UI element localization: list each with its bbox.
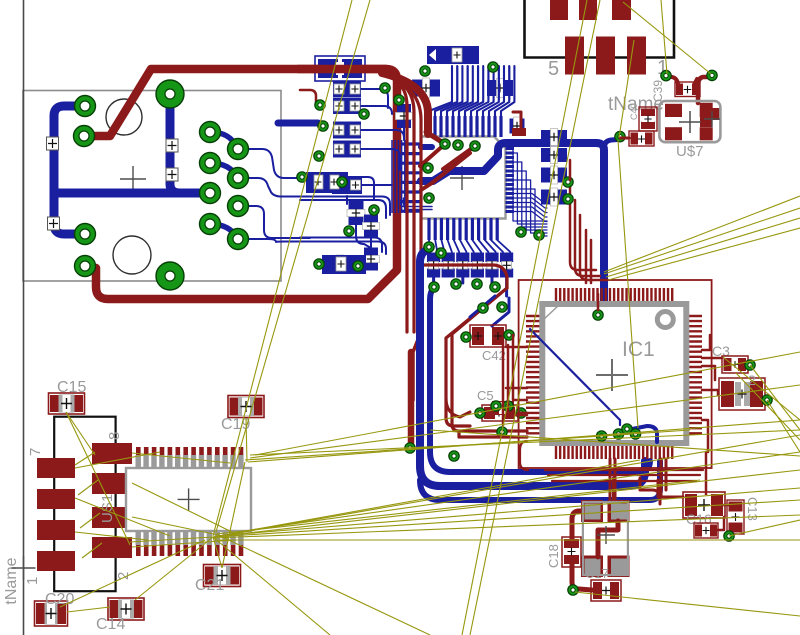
wire blue pad link 3 [210, 224, 238, 239]
IC1 top pins [555, 288, 557, 306]
wire blue diagonal IC1 [530, 329, 620, 425]
capacitor C42 [446, 398, 470, 417]
ic U2 left bus [391, 140, 393, 213]
wire blue top-left U2 [421, 144, 432, 150]
wire red vertical thickleft [413, 332, 421, 400]
capacitor C38 [629, 131, 654, 146]
svg-text:5: 5 [548, 58, 559, 80]
pad J1-6 [228, 168, 249, 189]
svg-text:2: 2 [115, 572, 132, 580]
airwire group [132, 453, 230, 463]
components C41 stack [541, 130, 567, 144]
capacitor C17 [591, 580, 621, 601]
ic U$7 red wire left via [666, 77, 678, 84]
ic U2 bottom fan [429, 240, 430, 252]
pad J1-2 [74, 126, 95, 147]
wire blue from via V1 [170, 96, 208, 193]
pad X1 upper row [550, 0, 568, 20]
resistor R17 [487, 80, 513, 96]
wire blue thin exits right [238, 149, 300, 178]
resistor R18 [397, 104, 411, 128]
crystal Q1 red top [612, 478, 616, 504]
svg-text:C40: C40 [629, 103, 639, 120]
ic US1 mid pads [92, 443, 132, 464]
wire red verticals mid [385, 75, 407, 332]
ic US2 soic pins top gray [136, 455, 141, 469]
resistor R13 [333, 122, 361, 139]
ic US1 dimension box [54, 417, 115, 592]
capacitor C16b [694, 523, 718, 538]
svg-text:C17: C17 [585, 566, 609, 581]
component R19 [306, 172, 348, 193]
wire red from C41 down [569, 160, 572, 180]
crystal Q1 pads [581, 500, 603, 522]
ic U2 left pins [402, 142, 421, 145]
test pad TP4 [166, 168, 178, 181]
IC1 keepout ring [519, 280, 712, 468]
ic U2 right pins fan [506, 143, 515, 146]
wire red thin cluster top-left [300, 90, 316, 104]
via IC1 bottom vias [596, 431, 606, 441]
ic U$7 pads [665, 104, 682, 117]
wire red band over cluster [298, 65, 386, 74]
crystal Q1 red left loop [572, 511, 592, 590]
svg-text:1: 1 [24, 577, 41, 585]
resistor R11 [333, 81, 361, 98]
resistor R21 [364, 215, 378, 238]
wire red IC1 bottom bundle [545, 469, 703, 471]
capacitor C14 [108, 598, 144, 620]
wire blue B3 bundle [420, 461, 660, 500]
test pad TP1 [47, 137, 59, 150]
pad J1-11 [75, 224, 96, 245]
wire red thick band curve down [382, 73, 428, 134]
crystal Q1 origin [597, 526, 615, 544]
IC1 origin cross [596, 359, 628, 391]
resistor R12 [333, 98, 361, 114]
wire blue stubs below cap row [432, 277, 435, 283]
IC1 chamfer [542, 305, 559, 321]
origin cross J1 [120, 166, 146, 192]
wire blue double bus lower [300, 238, 382, 253]
svg-text:C18: C18 [546, 544, 561, 568]
IC1 bottom pins [555, 441, 557, 459]
component C41 pads [492, 401, 514, 415]
wire blue pad link 1 [210, 132, 238, 149]
svg-text:U$7: U$7 [676, 143, 704, 160]
wire red diag in U2 2 [420, 144, 445, 166]
crystal Q1 red right [640, 478, 660, 504]
test pad TP2 [48, 217, 60, 230]
ic U2 top pins [427, 116, 430, 137]
wire red diag in U2 4 [421, 153, 470, 190]
wire red IC1 to Q1 [609, 459, 612, 503]
wire blue IC1 bottom elbow [627, 426, 657, 442]
pad J1-10 [228, 229, 249, 250]
capacitor C21 [204, 565, 241, 587]
capacitor C2 [719, 378, 765, 410]
via cluster v1 [315, 100, 325, 110]
IC1 body [542, 304, 686, 443]
via IC1 top [593, 310, 603, 320]
wire red elbow chip topright [513, 112, 521, 133]
wire red elbows to IC1 left [459, 431, 527, 437]
svg-text:tName: tName [3, 557, 20, 604]
capacitor C19 [228, 396, 264, 418]
svg-text:C5: C5 [477, 388, 494, 403]
wire blue to via U$7 [604, 140, 618, 149]
test pad TP3 [166, 139, 178, 152]
wire blue stub left2 [300, 174, 308, 181]
wire blue big Z in U2 [421, 143, 604, 316]
component R24 [322, 255, 366, 274]
svg-text:C14: C14 [96, 616, 125, 633]
ic US2 soic body [126, 468, 251, 531]
via C38 left [615, 131, 625, 141]
wire red top loop [84, 69, 397, 299]
crystal Q1 Z wire [598, 521, 618, 557]
via V2 large [156, 262, 184, 290]
wire red diag to lower [452, 288, 527, 431]
wire blue stub left1 [278, 120, 318, 127]
pad J1-3 [200, 122, 221, 143]
pad J1-9 [200, 214, 221, 235]
resistor R14 [333, 141, 361, 158]
via C39 left [661, 70, 671, 80]
svg-text:2: 2 [748, 372, 756, 388]
ic US2 soic pins bottom gray [136, 530, 141, 545]
wire red diag in U2 1 [426, 132, 445, 144]
ic US1 left pads [37, 458, 75, 478]
origin cross U2 [450, 166, 474, 190]
pad X1 lower row [565, 37, 584, 75]
pad J1-7 [200, 183, 221, 204]
ic U2 top fan [429, 66, 452, 116]
via Q1 gnd [568, 585, 578, 595]
wire blue B2 bundle [430, 289, 650, 472]
pad J1-1 [75, 96, 96, 117]
resistor R25 smdpair [510, 119, 525, 134]
ic U$7 outline [659, 101, 720, 142]
via V1 large [156, 80, 184, 108]
svg-text:C15: C15 [57, 379, 86, 396]
svg-text:C21: C21 [195, 577, 224, 594]
wire blue thin links cluster [361, 89, 388, 108]
wire red right pins elbows [702, 335, 710, 350]
ic US2 soic pins top red [136, 447, 141, 466]
wire red C16 links [723, 503, 731, 505]
wire blue double bus upper [300, 197, 390, 216]
wire red IC1 top bundle [570, 183, 596, 270]
wire blue B1 bundle [420, 249, 645, 486]
pad J1-12 [75, 256, 96, 277]
origin cross US2 [178, 488, 200, 510]
resistor R16 [412, 80, 440, 97]
capacitor C40 [639, 107, 657, 131]
svg-text:7: 7 [27, 448, 44, 456]
via C39 right [707, 70, 717, 80]
ic U2 comb extra [457, 66, 459, 100]
ic U$7 crosses [679, 111, 701, 133]
wire red IC1 to C16 [661, 459, 683, 497]
connector X1 outline [525, 0, 675, 58]
svg-text:8: 8 [106, 432, 123, 440]
ic U$7 red wire right via [698, 77, 712, 103]
resistor R22 [364, 248, 378, 271]
wire blue bus elbow right [401, 200, 433, 207]
wire blue horizontal J1 [54, 189, 208, 198]
capacitor C16 [683, 492, 725, 518]
svg-text:IC1: IC1 [622, 338, 655, 361]
wire red to via down [408, 352, 415, 446]
wire blue diag lower [470, 296, 495, 317]
capacitor C15 [49, 393, 85, 414]
svg-text:C20: C20 [45, 591, 74, 608]
IC1 pin1 circle [657, 312, 673, 328]
capacitor row CR1-CR6 [427, 253, 440, 263]
resistor R15 [332, 176, 362, 194]
pad J1-4 [228, 139, 249, 160]
capacitor C39 [675, 82, 700, 97]
wire blue pad link 2 [210, 163, 238, 178]
wire red left of IC1 [502, 340, 505, 425]
ic U2 bottom pins [427, 218, 430, 240]
connector J1 outline [23, 91, 281, 282]
crystal Q1 body outline [583, 502, 628, 575]
origin cross frame [12, 556, 36, 580]
resistor R20 [349, 201, 364, 225]
resistor R23 [328, 257, 353, 272]
wire red diag in U2 3 [443, 146, 475, 169]
pad J1-5 [200, 153, 221, 174]
drill hole bottom [113, 236, 151, 274]
IC1 left pins [526, 315, 543, 317]
connector K1 outline [315, 56, 365, 81]
board frame line [23, 0, 25, 635]
pad J1-8 [228, 196, 249, 217]
capacitor C20 [35, 601, 68, 626]
component D1 top [427, 46, 479, 64]
ic US2 soic pins bottom red [136, 534, 141, 556]
wire blue vertical left J1 [54, 106, 85, 234]
wire red through cap row [422, 265, 507, 288]
IC1 right pins [685, 315, 702, 317]
drill hole top [106, 99, 142, 135]
ic U2 body [421, 137, 506, 219]
